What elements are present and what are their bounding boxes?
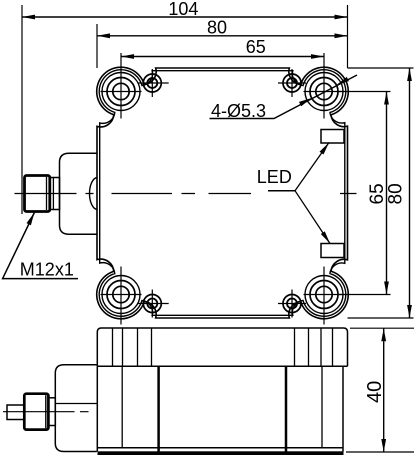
barrel (side view) [55, 365, 97, 452]
centerline top view [15, 193, 357, 195]
body inner outline [99, 70, 346, 317]
LED underline [268, 190, 295, 192]
body joint thick right [285, 366, 288, 451]
hole TR crosshair [304, 53, 345, 119]
40 arrows [381, 328, 386, 341]
small hole top-right [283, 74, 301, 92]
80 arrows [97, 33, 110, 38]
hole BL crosshair [101, 267, 142, 325]
dim 104 extension lines [22, 5, 348, 214]
small hole top-left [143, 74, 161, 92]
body joint thin left [121, 366, 123, 448]
hole BR crosshair [304, 267, 345, 325]
svg-text:65: 65 [246, 37, 266, 57]
barrel joint line [55, 403, 97, 405]
LED leader bottom [295, 191, 330, 244]
hole TL outer circle [102, 73, 140, 111]
dim 80 line [97, 35, 348, 37]
M12 nut (top view) [25, 176, 50, 212]
dim 80 right line [409, 68, 411, 318]
hole TR outer circle [305, 73, 343, 111]
LED arrow top [320, 143, 330, 155]
body block [97, 366, 343, 451]
centerline side view [3, 411, 89, 413]
small hole bottom-left [143, 295, 161, 313]
dim 40 extension lines [346, 328, 414, 452]
dim 65 line [121, 56, 324, 58]
lid [97, 328, 347, 366]
hole BL outer circle [102, 276, 140, 314]
bottom plate (clipped) [98, 451, 344, 455]
connector base (top view) [60, 153, 98, 234]
svg-text:80: 80 [207, 18, 227, 38]
65 arrows [121, 54, 134, 59]
104 arrows [22, 15, 35, 20]
svg-text:LED: LED [257, 167, 292, 187]
hole BR outer circle [305, 276, 343, 314]
hole BR inner circle [316, 286, 332, 302]
dim 40 line [383, 328, 385, 452]
hole TL crosshair [101, 53, 142, 119]
4-O5.3 arrow upper-right [336, 77, 349, 85]
4-O5.3 arrow lower-left [299, 98, 312, 106]
svg-text:M12x1: M12x1 [20, 260, 74, 280]
hole BL inner circle [113, 286, 129, 302]
LED window top [321, 130, 344, 144]
M12x1 arrow [27, 213, 35, 226]
dim 65 right line [386, 92, 388, 295]
4-O5.3 leader [210, 75, 358, 119]
small hole bottom-right [283, 295, 301, 313]
hole TR inner circle [316, 83, 332, 99]
svg-text:4-Ø5.3: 4-Ø5.3 [211, 101, 266, 121]
dim 65 right: extension lines [338, 92, 391, 295]
hole TL inner circle [113, 83, 129, 99]
dim 80 right: extension lines [348, 68, 414, 318]
collar (side view) [48, 398, 55, 426]
M12x1 leader [3, 213, 78, 279]
svg-text:80: 80 [386, 183, 407, 204]
body joint thick left [157, 366, 160, 451]
dim 80 extension line left [96, 24, 98, 68]
LED arrow bottom [321, 231, 330, 243]
nut hex edge line (side) [45, 395, 47, 428]
body outer outline [97, 67, 349, 319]
65 right arrows [384, 92, 389, 105]
body joint thin right [321, 366, 323, 448]
nut hex edge line [47, 177, 54, 210]
dim 104 line [22, 16, 348, 18]
lid grooves [113, 328, 333, 366]
connector collar (top view) [50, 178, 60, 210]
LED leader top [295, 143, 329, 191]
connector fillet arc at body edge [90, 178, 98, 210]
nut (side view) [24, 394, 48, 430]
svg-text:40: 40 [364, 381, 386, 403]
80 right arrows [407, 68, 412, 81]
LED window bottom [321, 244, 344, 258]
svg-text:104: 104 [168, 0, 198, 19]
stub (side view) [7, 405, 24, 420]
